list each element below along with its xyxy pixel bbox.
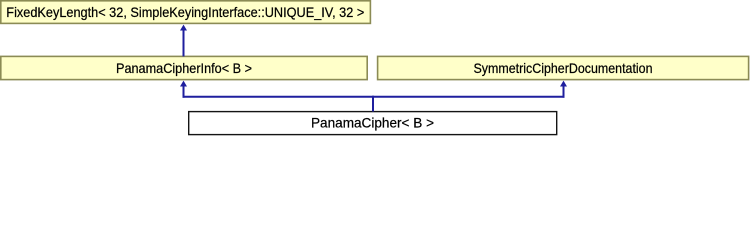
svg-text:SymmetricCipherDocumentation: SymmetricCipherDocumentation [474,60,653,76]
class box PanamaCipherInfo [1,56,367,79]
svg-text:FixedKeyLength< 32, SimpleKeyi: FixedKeyLength< 32, SimpleKeyingInterfac… [6,4,364,20]
svg-text:PanamaCipherInfo< B >: PanamaCipherInfo< B > [116,60,252,76]
inheritance arrow PanamaCipher to SymmetricCipherDocumentation [560,81,567,98]
class box FixedKeyLength [1,1,371,24]
wire from PanamaCipher up to junction [372,96,374,112]
svg-text:PanamaCipher< B >: PanamaCipher< B > [311,115,434,131]
class box PanamaCipher [189,112,557,135]
wire horizontal junction bar [183,96,565,98]
inheritance arrow PanamaCipherInfo to FixedKeyLength [180,25,187,57]
class box SymmetricCipherDocumentation [378,56,749,79]
inheritance arrow PanamaCipher to PanamaCipherInfo [180,81,187,98]
